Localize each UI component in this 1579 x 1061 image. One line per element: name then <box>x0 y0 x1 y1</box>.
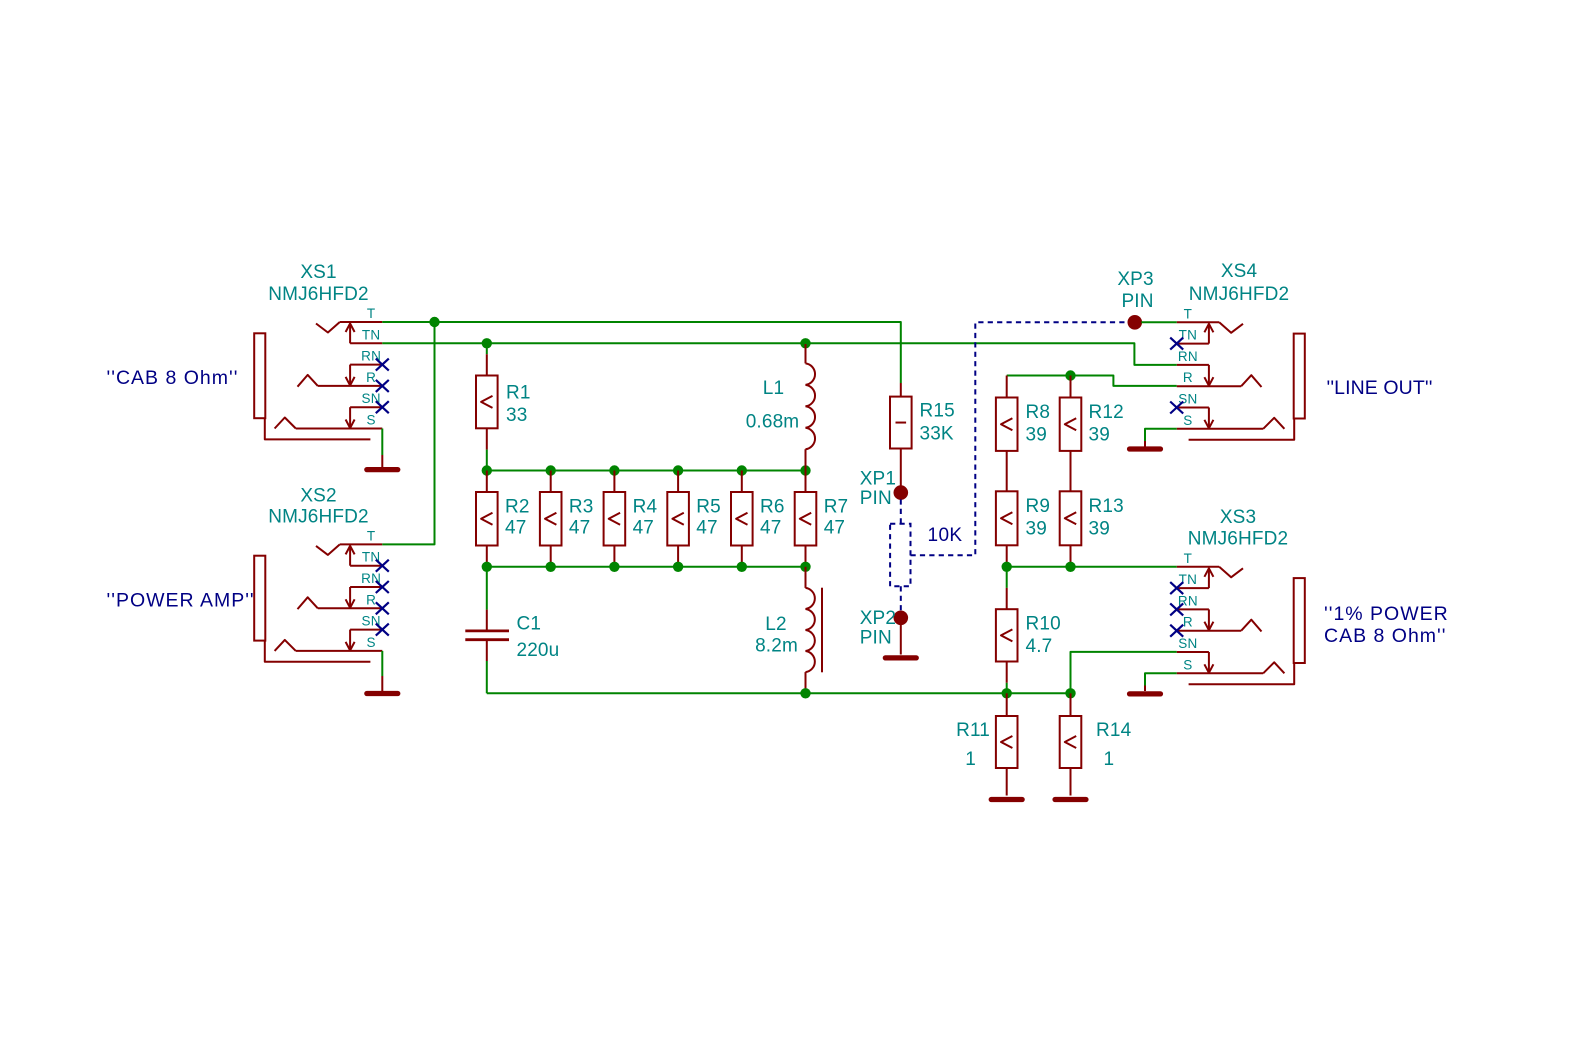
connector XS3 NMJ6HFD2 <box>1177 567 1305 684</box>
no-connect XS2 pin TN <box>376 560 389 572</box>
svg-text:R15: R15 <box>920 400 955 421</box>
svg-text:1: 1 <box>1104 749 1115 770</box>
svg-text:S: S <box>366 635 375 650</box>
svg-text:XS3: XS3 <box>1220 507 1256 528</box>
wire T bus from XS1 tip to R15 <box>382 322 901 383</box>
junction node mid bus x=805 <box>800 465 810 475</box>
no-connect XS2 pin RN <box>376 581 389 593</box>
svg-text:T: T <box>367 306 376 321</box>
svg-text:PIN: PIN <box>1121 291 1153 312</box>
wire from T bus down to XS2 tip <box>382 322 434 544</box>
wire XS2 sleeve to ground <box>381 651 383 676</box>
wire TN bus to R1 <box>486 343 488 354</box>
dashed line potentiometer to XP2 <box>900 586 902 611</box>
svg-text:39: 39 <box>1089 424 1110 445</box>
svg-text:L1: L1 <box>763 378 784 399</box>
junction node TN bus / R1 <box>482 338 492 348</box>
resistor R4 <box>604 492 626 546</box>
wire XS4 sleeve to ground <box>1145 429 1177 441</box>
resistor R2 <box>476 492 498 546</box>
svg-text:XS2: XS2 <box>300 486 336 507</box>
junction node bottom bus / L2 <box>800 688 810 698</box>
pin R7 top <box>805 471 807 493</box>
pin R15 bottom to XP1 <box>900 449 902 488</box>
svg-text:T: T <box>1184 551 1193 566</box>
wire R1 to mid bus <box>486 450 488 471</box>
resistor R12 <box>1060 398 1082 451</box>
test point XP2 <box>894 611 909 626</box>
junction node mid bus x=550 <box>546 465 556 475</box>
pins R12 bottom / R13 top <box>1070 451 1072 491</box>
svg-text:47: 47 <box>633 518 654 539</box>
resistor R15 <box>890 397 912 449</box>
svg-text:33K: 33K <box>920 424 954 445</box>
inductor L2 <box>806 588 823 673</box>
pin R7 bottom <box>805 546 807 567</box>
test point XP1 <box>894 485 909 500</box>
no-connect XS4 pin TN <box>1170 338 1183 350</box>
svg-text:PIN: PIN <box>860 628 892 649</box>
svg-text:''1% POWER: ''1% POWER <box>1324 603 1449 625</box>
pin R13 bottom <box>1070 545 1072 567</box>
resistor R9 <box>996 491 1018 545</box>
pin R2 top <box>486 471 488 493</box>
test point XP3 <box>1128 315 1143 330</box>
pin R9 bottom <box>1006 545 1008 567</box>
resistor R11 <box>996 716 1018 768</box>
ground GND at R11 <box>991 768 1022 800</box>
svg-text:XP1: XP1 <box>860 468 896 489</box>
no-connect XS3 pin TN <box>1170 582 1183 594</box>
svg-text:R12: R12 <box>1089 402 1124 423</box>
svg-text:47: 47 <box>824 518 845 539</box>
junction node R9 bottom <box>1002 562 1012 572</box>
no-connect XS1 pin R <box>376 380 389 392</box>
no-connect XS3 pin R <box>1170 625 1183 637</box>
wire R8 R12 tops to XS4 ring <box>1007 376 1177 386</box>
pin R2 bottom <box>486 546 488 567</box>
svg-text:1: 1 <box>965 749 976 770</box>
pin R5 bottom <box>677 546 679 567</box>
junction node R12 top <box>1065 370 1075 380</box>
svg-text:SN: SN <box>1178 636 1197 651</box>
pin R4 top <box>613 471 615 493</box>
resistor R8 <box>996 398 1018 451</box>
wire XS3 sleeve to ground <box>1145 673 1177 685</box>
wire XS3 sleeve-normal to bottom bus <box>1071 652 1177 693</box>
connector XS1 NMJ6HFD2 <box>254 322 382 439</box>
junction node bottom bus / R10 R11 <box>1002 688 1012 698</box>
potentiometer 10K (external, dashed) <box>890 524 910 587</box>
svg-text:S: S <box>366 413 375 428</box>
svg-text:33: 33 <box>506 405 527 426</box>
svg-text:R11: R11 <box>956 720 990 741</box>
pin R1 top <box>486 354 488 375</box>
svg-text:R9: R9 <box>1026 496 1051 517</box>
pin R8 top <box>1006 376 1008 398</box>
wire lower bus to C1 <box>486 567 488 610</box>
capacitor C1 <box>465 631 509 640</box>
resistor R10 <box>996 609 1018 661</box>
svg-text:RN: RN <box>1178 349 1198 364</box>
pin R12 top <box>1070 376 1072 398</box>
svg-text:47: 47 <box>505 518 526 539</box>
svg-text:39: 39 <box>1089 518 1110 539</box>
dashed line XP1 to potentiometer <box>900 499 902 523</box>
ground GND at XP2 <box>885 624 916 658</box>
svg-text:R5: R5 <box>696 496 721 517</box>
pin R3 top <box>550 471 552 493</box>
pin names of XS3 <box>1178 551 1198 673</box>
svg-text:T: T <box>1184 306 1193 321</box>
wire R10 to bottom bus <box>1006 683 1008 694</box>
svg-text:''CAB 8 Ohm'': ''CAB 8 Ohm'' <box>107 367 239 389</box>
svg-text:XP2: XP2 <box>860 608 896 629</box>
junction node bottom bus / R14 and XS3 SN <box>1065 688 1075 698</box>
junction node lower bus x=805 <box>800 562 810 572</box>
svg-text:47: 47 <box>760 518 781 539</box>
pin R3 bottom <box>550 546 552 567</box>
svg-text:L2: L2 <box>765 614 786 635</box>
svg-text:CAB 8 Ohm'': CAB 8 Ohm'' <box>1324 625 1446 647</box>
svg-text:47: 47 <box>696 518 717 539</box>
pin names of XS1 <box>361 306 381 428</box>
svg-text:39: 39 <box>1026 424 1047 445</box>
svg-text:C1: C1 <box>517 613 542 634</box>
no-connect XS2 pin SN <box>376 624 389 636</box>
ground GND at XS3 <box>1130 686 1161 694</box>
svg-text:R: R <box>1183 615 1193 630</box>
resistor R5 <box>667 492 689 546</box>
svg-text:4.7: 4.7 <box>1026 636 1053 657</box>
pin R4 bottom <box>613 546 615 567</box>
svg-text:R8: R8 <box>1026 402 1051 423</box>
svg-text:R13: R13 <box>1089 496 1124 517</box>
pin R15 top <box>900 383 902 397</box>
resistor R1 <box>476 376 498 429</box>
svg-text:R: R <box>1183 370 1193 385</box>
svg-text:R: R <box>366 370 376 385</box>
svg-text:XS1: XS1 <box>300 262 336 283</box>
junction node TN bus / L1 <box>800 338 810 348</box>
connector XS4 NMJ6HFD2 <box>1177 322 1305 439</box>
junction node mid bus x=486 <box>482 465 492 475</box>
wire bottom bus <box>487 692 1071 694</box>
pin R6 bottom <box>741 546 743 567</box>
wire R9 R13 bottoms to XS3 tip <box>1007 566 1177 568</box>
resistor R13 <box>1060 491 1082 545</box>
resistor R7 <box>795 492 817 546</box>
ground GND at XS2 <box>367 676 398 694</box>
svg-text:TN: TN <box>362 327 381 342</box>
svg-text:T: T <box>367 528 376 543</box>
svg-text:10K: 10K <box>928 525 963 546</box>
pin L1 top <box>805 344 807 363</box>
no-connect XS3 pin RN <box>1170 603 1183 615</box>
pins R8 bottom / R9 top <box>1006 451 1008 491</box>
svg-text:47: 47 <box>569 518 590 539</box>
junction node mid bus x=614 <box>609 465 619 475</box>
pin names of XS2 <box>361 528 381 650</box>
resistor R3 <box>540 492 562 546</box>
svg-text:NMJ6HFD2: NMJ6HFD2 <box>1188 529 1288 550</box>
inductor L1 <box>806 363 816 449</box>
pin R11 top <box>1006 693 1008 716</box>
svg-text:R10: R10 <box>1026 614 1061 635</box>
svg-text:220u: 220u <box>517 640 560 661</box>
no-connect XS4 pin SN <box>1170 402 1183 414</box>
resistor R6 <box>731 492 753 546</box>
no-connect XS1 pin SN <box>376 401 389 413</box>
wire XS3 tip bus to R10 <box>1006 567 1008 588</box>
junction node lower bus x=550 <box>546 562 556 572</box>
ground GND at R14 <box>1055 768 1086 800</box>
svg-text:R2: R2 <box>505 496 530 517</box>
junction node lower bus x=741 <box>737 562 747 572</box>
pin names of XS4 <box>1178 306 1198 428</box>
pin L1 bottom <box>805 449 807 470</box>
junction node R13 bottom <box>1065 562 1075 572</box>
svg-text:R1: R1 <box>506 382 531 403</box>
junction node lower bus x=678 <box>673 562 683 572</box>
svg-text:XP3: XP3 <box>1117 269 1153 290</box>
ground GND at XS1 <box>367 455 398 470</box>
pin C1 top <box>486 610 488 631</box>
pin R10 top <box>1006 588 1008 609</box>
resistor R14 <box>1060 716 1082 768</box>
svg-text:R3: R3 <box>569 496 594 517</box>
pin R10 bottom <box>1006 662 1008 683</box>
pin C1 bottom <box>486 640 488 661</box>
pin L2 bottom <box>805 672 807 693</box>
pin L2 top <box>805 567 807 588</box>
pin R5 top <box>677 471 679 493</box>
connector XS2 NMJ6HFD2 <box>254 544 382 661</box>
svg-text:R14: R14 <box>1096 720 1132 741</box>
svg-text:''LINE OUT'': ''LINE OUT'' <box>1327 377 1433 399</box>
pin R14 top <box>1070 693 1072 716</box>
wire XS1 sleeve to ground <box>381 429 383 456</box>
junction node mid bus x=741 <box>737 465 747 475</box>
svg-text:8.2m: 8.2m <box>755 636 798 657</box>
junction node lower bus x=614 <box>609 562 619 572</box>
svg-text:R4: R4 <box>633 496 658 517</box>
wire TN bus from XS1 to XS4 RN <box>382 343 1176 365</box>
svg-text:XS4: XS4 <box>1221 261 1258 282</box>
ground GND at XS4 <box>1130 441 1161 449</box>
wire C1 to bottom bus <box>486 661 488 693</box>
svg-text:''POWER AMP'': ''POWER AMP'' <box>107 590 255 612</box>
svg-text:PIN: PIN <box>860 488 892 509</box>
no-connect XS1 pin RN <box>376 359 389 371</box>
junction node lower bus x=486 <box>482 562 492 572</box>
pin R6 top <box>741 471 743 493</box>
pin R1 bottom <box>486 428 488 449</box>
svg-text:NMJ6HFD2: NMJ6HFD2 <box>268 284 368 305</box>
svg-text:R6: R6 <box>760 496 785 517</box>
svg-text:S: S <box>1183 413 1192 428</box>
svg-text:NMJ6HFD2: NMJ6HFD2 <box>268 506 368 527</box>
svg-text:0.68m: 0.68m <box>746 412 800 433</box>
wire XP3 to XS4 tip <box>1141 321 1176 323</box>
junction node at T bus / XS2 branch <box>429 317 439 327</box>
junction node mid bus x=678 <box>673 465 683 475</box>
wire lower bus (R2..R7 bottoms, C1, L2) <box>487 566 806 568</box>
svg-text:R7: R7 <box>824 496 849 517</box>
svg-text:NMJ6HFD2: NMJ6HFD2 <box>1189 284 1289 305</box>
svg-text:39: 39 <box>1026 518 1047 539</box>
svg-text:S: S <box>1183 657 1192 672</box>
no-connect XS2 pin R <box>376 602 389 614</box>
dashed line potentiometer wiper to XP3 <box>911 322 1129 555</box>
svg-text:R: R <box>366 592 376 607</box>
wire mid bus (R1/L1 bottoms to R2..R7 tops) <box>487 470 806 472</box>
